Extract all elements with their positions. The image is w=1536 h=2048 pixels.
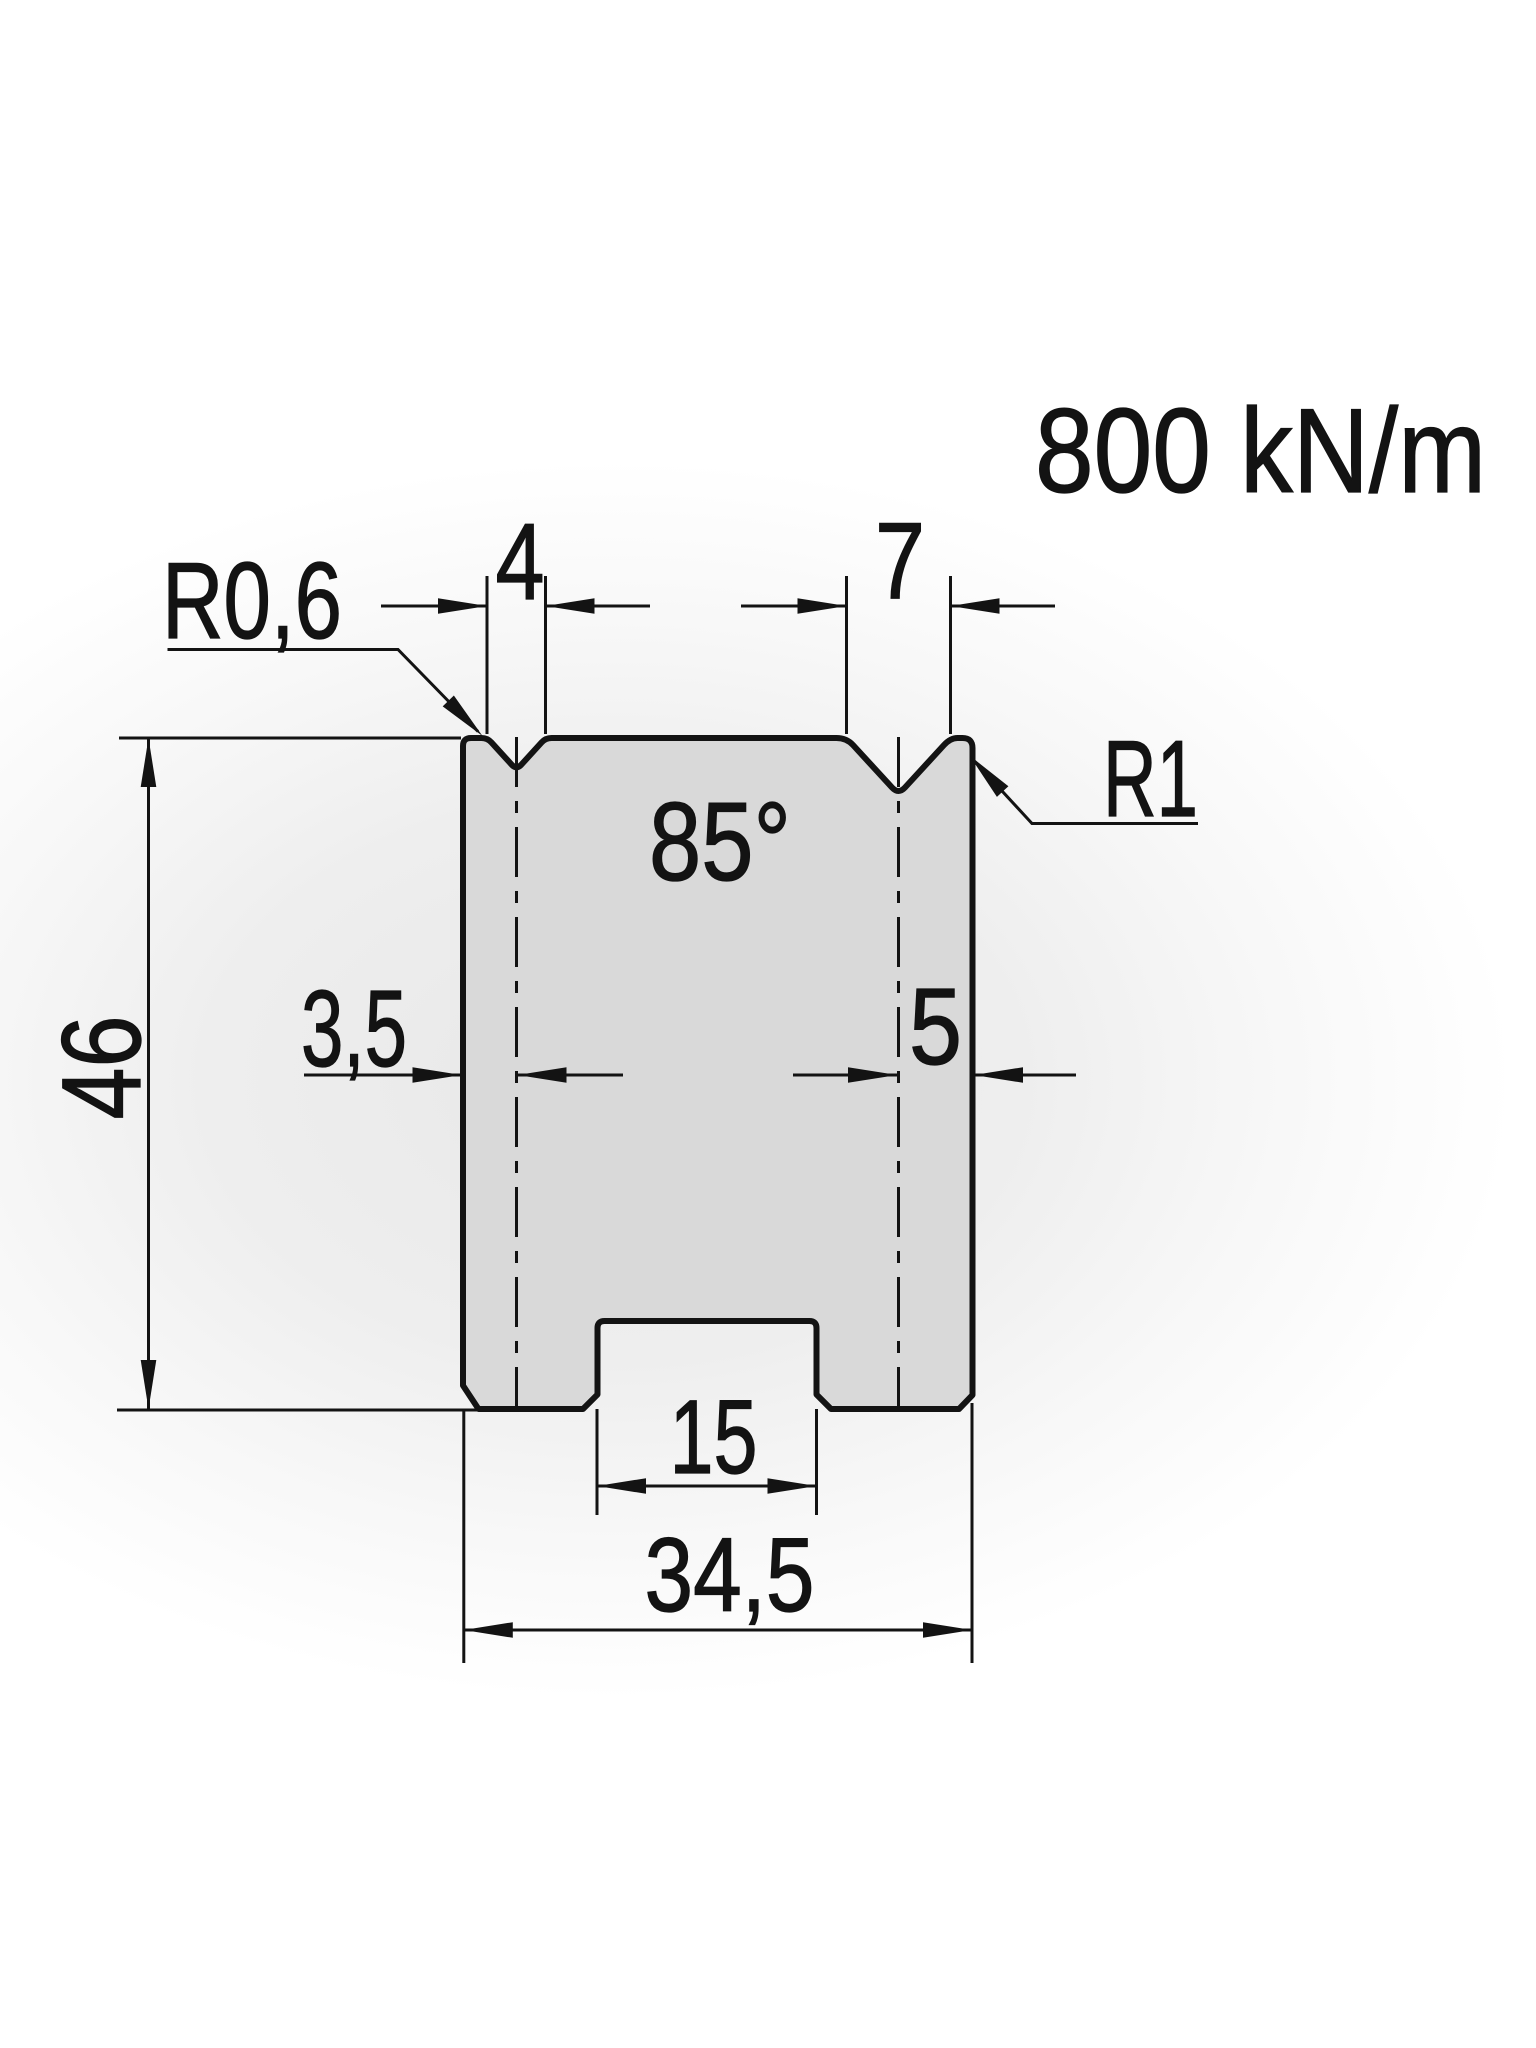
leader R1 bbox=[973, 760, 1198, 824]
dimension 7 : dimension line with arrows bbox=[741, 605, 847, 608]
svg-text:34,5: 34,5 bbox=[645, 1517, 815, 1634]
svg-text:5: 5 bbox=[909, 966, 962, 1088]
svg-text:4: 4 bbox=[496, 501, 545, 623]
dimension 15 : dimension line with arrows bbox=[597, 1485, 817, 1488]
svg-text:7: 7 bbox=[875, 500, 925, 622]
dimension 46 : extension lines bbox=[119, 737, 461, 740]
svg-text:R1: R1 bbox=[1103, 718, 1198, 840]
dimension 4 : dimension line with arrows bbox=[381, 605, 487, 608]
dimension 7 : extension lines bbox=[845, 576, 848, 734]
die body (2-V die cross-section) bbox=[463, 738, 973, 1409]
dimension 3,5 : arrows bbox=[304, 1074, 462, 1077]
dimension 5 : arrows bbox=[793, 1074, 897, 1077]
leader R0,6 bbox=[168, 650, 479, 732]
svg-text:85°: 85° bbox=[649, 780, 791, 904]
dimension 34,5 : extension lines bbox=[462, 1409, 465, 1663]
dimension 4 : extension lines bbox=[486, 576, 489, 734]
dimension 46 : dimension line with arrows bbox=[147, 738, 150, 1409]
svg-text:3,5: 3,5 bbox=[301, 968, 407, 1090]
dimension 15 : extension lines bbox=[596, 1409, 599, 1515]
dimension 34,5 : dimension line with arrows bbox=[464, 1629, 972, 1632]
right V-groove centerline bbox=[897, 737, 900, 1409]
svg-text:800 kN/m: 800 kN/m bbox=[1035, 384, 1486, 518]
svg-text:R0,6: R0,6 bbox=[162, 540, 342, 662]
left V-groove centerline bbox=[515, 737, 518, 1409]
svg-text:15: 15 bbox=[670, 1379, 758, 1496]
svg-text:46: 46 bbox=[39, 1016, 164, 1120]
